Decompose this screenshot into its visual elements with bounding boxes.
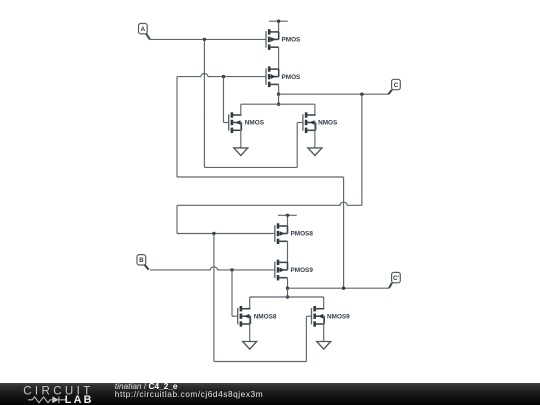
wire NMOS9 source to ground [323, 316, 325, 341]
wire net C to NMOS9 vertical [213, 234, 215, 362]
wire net A vertical [203, 39, 205, 167]
wire net C' horizontal [288, 287, 390, 289]
svg-text:PMOS8: PMOS8 [291, 231, 314, 238]
pmos transistor M2 [266, 66, 301, 87]
svg-text:B: B [139, 257, 144, 264]
wire net C middle horizontal (hop over C') [177, 202, 362, 205]
wire NMOS2 drain corner [314, 104, 316, 115]
pmos transistor M6 [275, 260, 314, 281]
pmos transistor M1 [266, 29, 301, 50]
wire VDD to PMOS8 source [287, 215, 289, 233]
nmos transistor M7 [238, 306, 277, 327]
junction net B [230, 268, 233, 271]
svg-text:NMOS: NMOS [245, 120, 265, 127]
svg-text:NMOS: NMOS [318, 120, 338, 127]
nmos transistor M3 [229, 112, 265, 133]
svg-text:PMOS: PMOS [282, 74, 302, 81]
wire net A riser [296, 123, 298, 168]
wire net A horizontal [150, 38, 267, 40]
wire net C' gate horizontal (hop over A) [177, 74, 266, 77]
wire net B to NMOS8 gate lead [232, 315, 238, 317]
wire net C gate horizontal bottom [177, 233, 275, 235]
wire NMOS8 source to ground [249, 316, 251, 341]
svg-text:LAB: LAB [65, 394, 94, 405]
svg-text:PMOS: PMOS [282, 37, 302, 44]
node flag C' [389, 272, 400, 288]
node flag A [139, 24, 150, 40]
wire net C riser to NMOS9 [305, 316, 307, 361]
wire net A lower horizontal [204, 166, 297, 168]
wire net C left vertical [176, 205, 178, 233]
wire net C' to NMOS gate vertical [223, 77, 225, 123]
wire PMOS9 drain down [287, 278, 289, 289]
wire net A to NMOS gate [297, 122, 303, 124]
junction VDD bottom [286, 214, 289, 217]
node flag C [388, 79, 400, 94]
junction net C [360, 93, 363, 96]
wire NMOS8 drain corner [249, 297, 251, 309]
wire PMOS8 drain to PMOS9 source [287, 241, 289, 270]
wire net C bottom horizontal [214, 361, 307, 363]
junction NMOS drain rail [277, 103, 280, 106]
VDD rail top [269, 20, 288, 22]
VDD rail bottom [278, 214, 297, 216]
ground NMOS9 [317, 342, 331, 350]
wire PMOS2 drain down [278, 84, 280, 94]
svg-text:PMOS9: PMOS9 [291, 267, 314, 274]
junction net C output [277, 93, 280, 96]
wire net C' left vertical [176, 77, 178, 177]
nmos transistor M4 [303, 112, 338, 133]
ground NMOS8 [243, 342, 257, 350]
wire NMOS drain rail bottom [250, 296, 324, 298]
junction net C bottom [212, 232, 215, 235]
junction net A [203, 38, 206, 41]
wire net B to NMOS8 vertical [231, 270, 233, 316]
svg-text:NMOS9: NMOS9 [327, 313, 350, 320]
wire NMOS drain rail [241, 103, 315, 105]
wire NMOS1 source to ground [240, 123, 242, 148]
wire net C horizontal [279, 93, 389, 95]
svg-text:http://circuitlab.com/cj6d4s8q: http://circuitlab.com/cj6d4s8qjex3m [115, 389, 263, 399]
svg-text:A: A [141, 26, 146, 33]
junction NMOS rail bottom [286, 295, 289, 298]
junction net C' output [286, 287, 289, 290]
svg-text:NMOS8: NMOS8 [254, 313, 277, 320]
logo resistor-diode glyph [28, 397, 66, 404]
ground NMOS2 [308, 148, 322, 156]
wire NMOS9 drain corner [323, 297, 325, 309]
wire net C to NMOS rail [278, 94, 280, 104]
nmos transistor M8 [312, 306, 351, 327]
ground NMOS1 [234, 148, 248, 156]
wire net C' middle horizontal [177, 176, 344, 178]
wire net B horizontal (hop over C) [150, 267, 275, 270]
svg-text:C: C [394, 82, 399, 89]
wire net C' to NMOS rail [287, 288, 289, 297]
pmos transistor M5 [275, 223, 314, 244]
wire net C right vertical [361, 94, 363, 205]
junction net C' [222, 75, 225, 78]
junction VDD [277, 20, 280, 23]
logo diode triangle [52, 396, 59, 403]
junction net C' feedback [342, 287, 345, 290]
wire NMOS2 source to ground [314, 123, 316, 148]
wire VDD to PMOS source [278, 21, 280, 39]
wire net C' to NMOS gate lead [224, 122, 229, 124]
node flag B [137, 255, 149, 270]
wire net C to NMOS9 gate lead [306, 315, 311, 317]
wire NMOS1 drain corner [240, 104, 242, 115]
wire net C' down vertical [343, 177, 345, 288]
wire PMOS drain to PMOS source [278, 47, 280, 76]
svg-text:C′: C′ [393, 275, 399, 282]
